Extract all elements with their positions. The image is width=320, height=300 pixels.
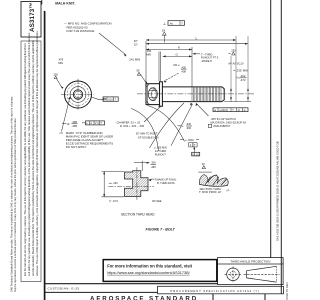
svg-text:.4u: .4u	[169, 21, 173, 25]
svg-text:sclencas. The use of thls repo: sclencas. The use of thls report ls entl…	[35, 30, 39, 276]
svg-text:.240: .240	[113, 181, 119, 185]
svg-text:15°: 15°	[134, 42, 138, 46]
svg-text:.015: .015	[108, 97, 114, 101]
svg-text:may be reproduced, stored ln a: may be reproduced, stored ln a retrleval…	[13, 117, 17, 292]
svg-text:⌀ .005 MIN: ⌀ .005 MIN	[154, 146, 167, 150]
svg-text:Ere tfa ctal lorls dL atl ons,: Ere tfa ctal lorls dL atl ons, engl naer…	[23, 43, 27, 276]
svg-text:.005’ B L’AP SANTCO: .005’ B L’AP SANTCO	[211, 117, 237, 121]
svg-text:DO NOT APPLY: DO NOT APPLY	[66, 145, 87, 149]
svg-text:⌀: ⌀	[67, 122, 69, 126]
svg-text:L: L	[196, 36, 198, 40]
svg-text:.478: .478	[58, 57, 64, 61]
svg-text:⌀.002Ⓜ: ⌀.002Ⓜ	[219, 108, 228, 112]
svg-text:SAE Technlcal Standards Board: SAE Technlcal Standards Board Rules prov…	[9, 96, 13, 292]
svg-text:3X: 3X	[162, 28, 166, 32]
svg-text:MIN: MIN	[146, 52, 151, 56]
svg-text:V 3: V 3	[95, 121, 99, 125]
svg-text:MALH KNIT.: MALH KNIT.	[55, 2, 75, 6]
svg-text:.241 MIN: .241 MIN	[129, 58, 141, 62]
svg-text:MAJOR DIA .1900-32UNJF-3A: MAJOR DIA .1900-32UNJF-3A	[211, 120, 247, 124]
svg-text:FOR T-49 DISTANCE: FOR T-49 DISTANCE	[67, 29, 95, 33]
svg-text:OF DOUBLE HEX: OF DOUBLE HEX	[138, 135, 159, 139]
svg-text:3X: 3X	[202, 162, 205, 166]
svg-text:T: RVD PROF LP: T: RVD PROF LP	[199, 190, 221, 194]
svg-text:CHAMFER .03 + .02: CHAMFER .03 + .02	[117, 120, 141, 124]
svg-text:.485: .485	[72, 124, 78, 128]
svg-text:.MORE P: .MORE P	[201, 59, 212, 63]
svg-text:and lts standards. Board Rules: and lts standards. Board Rules provlde t…	[31, 39, 35, 276]
svg-text:B. THRD.DATA: B. THRD.DATA	[157, 181, 175, 185]
svg-text:SECTION THRU HEAD: SECTION THRU HEAD	[121, 213, 155, 217]
svg-text:A: A	[90, 121, 92, 125]
svg-text:SOLD TO REO: SOLD TO REO	[285, 282, 289, 300]
svg-text:CUSTODIAN: G-25: CUSTODIAN: G-25	[48, 286, 80, 290]
svg-text:AEROSPACE STANDARD: AEROSPACE STANDARD	[90, 296, 198, 300]
svg-text:MIN: MIN	[58, 61, 63, 65]
svg-text:.01: .01	[195, 153, 199, 156]
svg-text:DN ⌀: DN ⌀	[174, 63, 180, 67]
svg-text:AS3173™: AS3173™	[29, 2, 36, 32]
svg-text:⌀ .0002: ⌀ .0002	[185, 138, 194, 142]
svg-text:1/2 THRD: 1/2 THRD	[155, 149, 167, 153]
svg-text:i P: i P	[226, 189, 229, 193]
svg-text:.300: .300	[151, 161, 157, 165]
svg-text:.930: .930	[186, 126, 192, 130]
svg-text:30° MIN TO ROOT: 30° MIN TO ROOT	[136, 132, 158, 136]
svg-text:F’ .01.5: F’ .01.5	[109, 199, 118, 203]
svg-text:FIGURE 7 - BOLT: FIGURE 7 - BOLT	[146, 227, 176, 231]
svg-text:THIRD ANGLE PROJECTION: THIRD ANGLE PROJECTION	[230, 259, 270, 263]
svg-text:.472: .472	[240, 78, 246, 82]
svg-text:R9 SEE: R9 SEE	[152, 199, 161, 203]
svg-text:sult ablll ty for any partlcul: sult ablll ty for any partlcular use, ln…	[27, 32, 31, 276]
svg-text:.428: .428	[181, 65, 187, 69]
svg-text:SHAKE UP R:NAL: SHAKE UP R:NAL	[155, 177, 177, 181]
svg-text:30°: 30°	[136, 68, 140, 72]
svg-text:RUNOUT: RUNOUT	[155, 153, 167, 157]
svg-text:For more information on this s: For more information on this standard, v…	[107, 263, 192, 268]
svg-text:https://www.sae.org/standards/: https://www.sae.org/standards/content/AS…	[107, 271, 190, 275]
svg-text:PROCUREMENT SPECIFICATION AS7: PROCUREMENT SPECIFICATION AS7464 (?)	[170, 289, 259, 293]
svg-text:.280: .280	[151, 165, 157, 169]
svg-text:PER AS8879Y: PER AS8879Y	[214, 124, 231, 128]
svg-text:SAE AS3173B 2019-11 REAFFIRME: SAE AS3173B 2019-11 REAFFIRMED 2019-11 H…	[276, 141, 280, 241]
svg-text:250: 250	[231, 49, 236, 53]
svg-text:.235’ MIN: .235’ MIN	[236, 68, 248, 72]
svg-text:30°: 30°	[134, 39, 138, 43]
svg-text:250: 250	[54, 72, 59, 76]
svg-text:R .D15 + .015 − .005: R .D15 + .015 − .005	[120, 124, 145, 128]
svg-text:.408: .408	[181, 69, 187, 73]
svg-text:.940: .940	[186, 122, 192, 126]
